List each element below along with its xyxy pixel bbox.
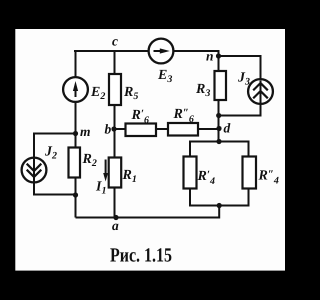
resistor R1: [109, 158, 122, 188]
wire top c-n: [74, 50, 219, 52]
node d: [216, 121, 230, 136]
svg-text:n: n: [206, 49, 214, 64]
wire J2 loop: [34, 134, 76, 195]
current source J3: [248, 79, 273, 104]
resistor R''6: [168, 123, 198, 136]
wire right vertical n-d: [218, 50, 220, 142]
node b: [105, 122, 117, 137]
junction left bottom: [73, 192, 78, 197]
svg-text:m: m: [80, 124, 91, 139]
wire R4 parallel loop: [190, 142, 249, 206]
source E2: [63, 77, 88, 102]
current arrow I1: [103, 160, 108, 182]
resistor R'4: [184, 157, 197, 189]
svg-text:a: a: [112, 218, 119, 233]
junction R4 top: [216, 139, 221, 144]
wire bottom a: [76, 206, 220, 218]
source E3: [149, 39, 174, 64]
resistor R''4: [243, 157, 257, 189]
node n: [206, 49, 221, 64]
svg-text:b: b: [105, 122, 112, 137]
resistor R2: [69, 148, 81, 178]
resistor R'6: [126, 124, 157, 137]
svg-text:Рис. 1.15: Рис. 1.15: [110, 245, 172, 267]
svg-text:c: c: [112, 34, 118, 49]
node m: [73, 124, 91, 139]
junction R4 bottom: [217, 203, 222, 208]
current source J2: [22, 158, 47, 183]
wire left vertical (E2 branch down to bottom corner): [75, 50, 77, 218]
resistor R3: [215, 71, 227, 100]
wire b-d: [114, 128, 219, 130]
svg-text:d: d: [224, 121, 231, 136]
junction J3 bottom: [216, 113, 221, 118]
wire J3 loop: [219, 56, 261, 116]
resistor R5: [109, 74, 121, 105]
wire middle vertical c-b-a: [114, 51, 116, 218]
node a: [112, 215, 119, 233]
